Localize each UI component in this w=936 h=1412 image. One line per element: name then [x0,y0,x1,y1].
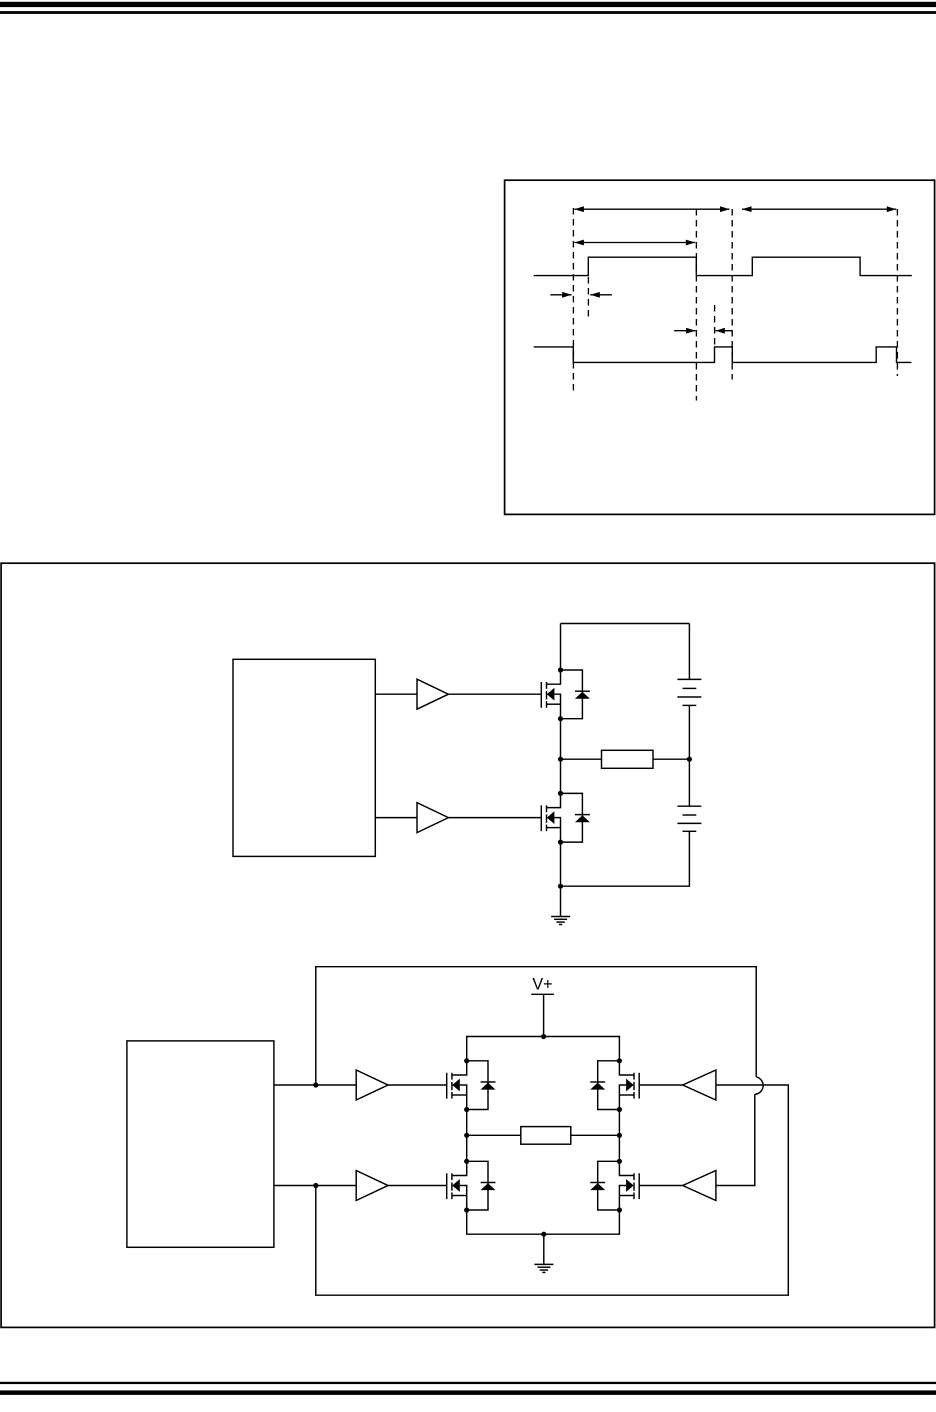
junction: Q6 drain [617,1159,622,1164]
controller U1 (half-bridge driver block) [233,659,375,856]
dimension arrow first half period [574,208,729,210]
dashed guide line at input fall [695,209,697,401]
junction: ground rail node [541,1232,546,1237]
junction: Q3 drain [464,1058,469,1063]
pulse width arrow left (points right) [674,330,696,332]
delay arrow left (points right) [550,294,571,296]
wire left bridge leg [466,1110,468,1162]
wire U2 output A to buffer A3 [274,1084,356,1086]
wire top rail vertical to Q1 drain [560,624,562,671]
resistor R1 (load) [602,750,654,768]
ground symbol circuit 2 [534,1234,553,1272]
junction: Q2 drain node [558,791,563,796]
wire buffer A2 to Q2 gate [448,817,541,819]
dashed guide line at output pulse fall [731,209,733,380]
buffer A4 [356,1171,388,1201]
wire Q2 source to ground node [560,842,562,886]
body diode D1 [561,670,590,719]
battery BT2 [677,759,701,831]
wire ground node to battery BT2 [561,831,690,886]
buffer A2 [417,803,448,833]
waveform lower (output signal) [534,347,912,363]
wire load R2 to right phase node [571,1134,620,1136]
junction: Q5 drain [617,1058,622,1063]
resistor R2 (load) [521,1127,571,1145]
application circuits frame [1,563,935,1327]
body diode D5 [590,1061,619,1110]
dashed guide line at output pulse rise [714,305,716,346]
wire buffer A1 to Q1 gate [448,693,541,695]
body diode D3 [467,1061,496,1110]
delay arrow right (points left) [590,294,612,296]
dimension arrow on-time [574,242,695,244]
transistor Q2 (N-channel MOSFET) [541,793,560,842]
wire right bridge leg [618,1110,620,1162]
junction: V+ rail node [541,1034,546,1039]
battery BT1 [677,624,701,760]
wire U1 output A to buffer A1 [375,693,417,695]
ground symbol circuit 1 [551,886,570,924]
transistor Q5 (upper right N-MOSFET, mirrored) [619,1061,639,1110]
body diode D2 [561,793,590,842]
junction: battery midpoint node [687,757,692,762]
buffer A6 (lower right, facing left) [683,1171,716,1201]
wire U1 output B to buffer A2 [375,817,417,819]
pulse width arrow right (points left) [715,330,732,332]
wire hop to lower-right buffer input [716,1094,755,1185]
junction: ground node [558,884,563,889]
page bottom rule thin [0,1382,936,1384]
junction: Q1 drain node [558,667,563,672]
junction: Q6 source [617,1207,622,1212]
buffer A5 (upper right, facing left) [683,1070,716,1100]
junction: Q5 source [617,1107,622,1112]
wire cross-coupling top (output A to lower-right buffer) [316,967,756,1085]
controller U2 (H-bridge driver block) [127,1041,274,1247]
junction: phase node left [558,757,563,762]
dashed guide line at period end [896,209,898,376]
wire U2 output B to buffer A4 [274,1185,356,1187]
transistor Q4 (lower left N-MOSFET) [447,1161,467,1210]
junction: right phase node [617,1133,622,1138]
body diode D6 [590,1161,619,1210]
transistor Q6 (lower right N-MOSFET, mirrored) [619,1161,639,1210]
transistor Q1 (N-channel MOSFET) [541,670,560,719]
page top rule thick [0,2,936,7]
svg-text:V+: V+ [532,976,552,994]
junction: left phase node [464,1133,469,1138]
wire buffer A5 to Q5 gate [639,1084,683,1086]
wire Q1 source to phase node [560,719,562,794]
page bottom rule thick [0,1390,936,1395]
wire bottom rail of bridge [467,1210,620,1234]
wire V+ to top rail [543,994,545,1036]
wire top rail horizontal [561,623,690,625]
page top rule thin [0,11,936,14]
junction: Q2 source node [558,840,563,845]
junction: output A tap [313,1082,318,1087]
wire phase node to load R1 [561,758,602,760]
junction: Q1 source node [558,716,563,721]
body diode D4 [467,1161,496,1210]
wire buffer A3 to Q3 gate [388,1084,447,1086]
wire left phase node to load R2 [467,1134,521,1136]
junction: Q4 source [464,1207,469,1212]
dashed guide line at input rise [587,277,589,321]
wire buffer A6 to Q6 gate [639,1185,683,1187]
dashed guide line at first rising edge [572,208,574,395]
wire load R1 to battery midpoint [653,758,689,760]
wire buffer A4 to Q4 gate [388,1185,447,1187]
wire top rail of bridge [467,1037,620,1061]
junction: Q3 source [464,1107,469,1112]
V+ terminal bar [531,993,554,995]
junction: Q4 drain [464,1159,469,1164]
wire cross-coupling bottom (output B to upper-right buffer) [316,1085,789,1295]
wire hop over upper-right gate wire [755,1077,763,1094]
timing diagram frame [505,180,935,514]
dimension arrow second half period [742,208,896,210]
buffer A1 [417,679,448,709]
junction: output B tap [313,1183,318,1188]
waveform upper (input signal) [534,257,912,275]
transistor Q3 (upper left N-MOSFET) [447,1061,467,1110]
buffer A3 [356,1070,388,1100]
